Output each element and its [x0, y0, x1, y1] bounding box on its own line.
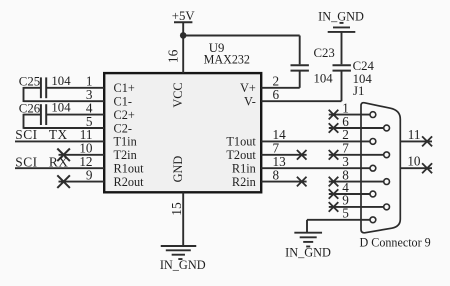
svg-text:T1out: T1out [226, 135, 256, 149]
svg-text:V+: V+ [240, 81, 256, 95]
svg-text:+5V: +5V [172, 9, 196, 23]
svg-text:6: 6 [273, 87, 280, 102]
svg-text:5: 5 [342, 206, 349, 221]
svg-text:C26: C26 [19, 102, 41, 116]
svg-text:MAX232: MAX232 [204, 52, 250, 66]
svg-text:16: 16 [165, 49, 180, 63]
svg-text:R1out: R1out [114, 162, 145, 176]
svg-text:SCI RX: SCI RX [15, 154, 68, 169]
svg-text:C1+: C1+ [114, 81, 135, 95]
svg-text:T2in: T2in [114, 148, 137, 162]
svg-text:IN_GND: IN_GND [285, 245, 331, 259]
svg-text:C2-: C2- [114, 121, 132, 135]
svg-text:GND: GND [171, 156, 185, 183]
svg-text:SCI TX: SCI TX [15, 127, 67, 142]
svg-text:T1in: T1in [114, 135, 137, 149]
svg-text:R2out: R2out [114, 175, 145, 189]
svg-text:10: 10 [407, 154, 421, 169]
svg-text:J1: J1 [353, 84, 364, 98]
svg-text:15: 15 [169, 202, 184, 216]
svg-text:104: 104 [51, 101, 71, 115]
svg-text:R1in: R1in [232, 162, 256, 176]
svg-text:C24: C24 [353, 59, 375, 73]
svg-text:C1-: C1- [114, 95, 132, 109]
svg-text:IN_GND: IN_GND [160, 258, 206, 272]
svg-text:VCC: VCC [171, 82, 185, 107]
svg-text:9: 9 [86, 167, 93, 182]
svg-text:R2in: R2in [232, 175, 256, 189]
svg-text:11: 11 [408, 127, 421, 142]
svg-text:104: 104 [314, 72, 334, 86]
svg-text:8: 8 [273, 167, 280, 182]
svg-text:C23: C23 [314, 46, 335, 60]
svg-text:C25: C25 [19, 75, 40, 89]
svg-text:C2+: C2+ [114, 108, 135, 122]
svg-text:D Connector 9: D Connector 9 [360, 236, 431, 250]
svg-text:T2out: T2out [226, 148, 256, 162]
svg-text:IN_GND: IN_GND [318, 9, 364, 23]
svg-text:V-: V- [244, 95, 256, 109]
svg-text:104: 104 [51, 74, 71, 88]
